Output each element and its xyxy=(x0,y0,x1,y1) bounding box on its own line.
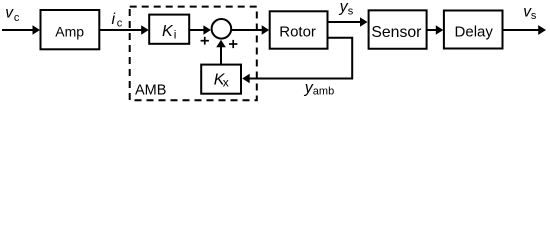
svg-text:c: c xyxy=(117,18,123,30)
svg-text:Amp: Amp xyxy=(55,23,84,39)
svg-text:i: i xyxy=(112,11,116,28)
svg-text:x: x xyxy=(223,76,229,90)
svg-text:c: c xyxy=(14,12,20,24)
svg-text:amb: amb xyxy=(313,86,334,98)
svg-text:s: s xyxy=(531,10,537,22)
svg-text:Rotor: Rotor xyxy=(279,23,316,40)
svg-text:K: K xyxy=(162,23,174,40)
svg-text:AMB: AMB xyxy=(135,82,166,98)
svg-text:Sensor: Sensor xyxy=(371,24,421,41)
svg-text:Delay: Delay xyxy=(455,23,494,40)
svg-text:s: s xyxy=(348,5,354,17)
svg-text:i: i xyxy=(174,27,177,41)
